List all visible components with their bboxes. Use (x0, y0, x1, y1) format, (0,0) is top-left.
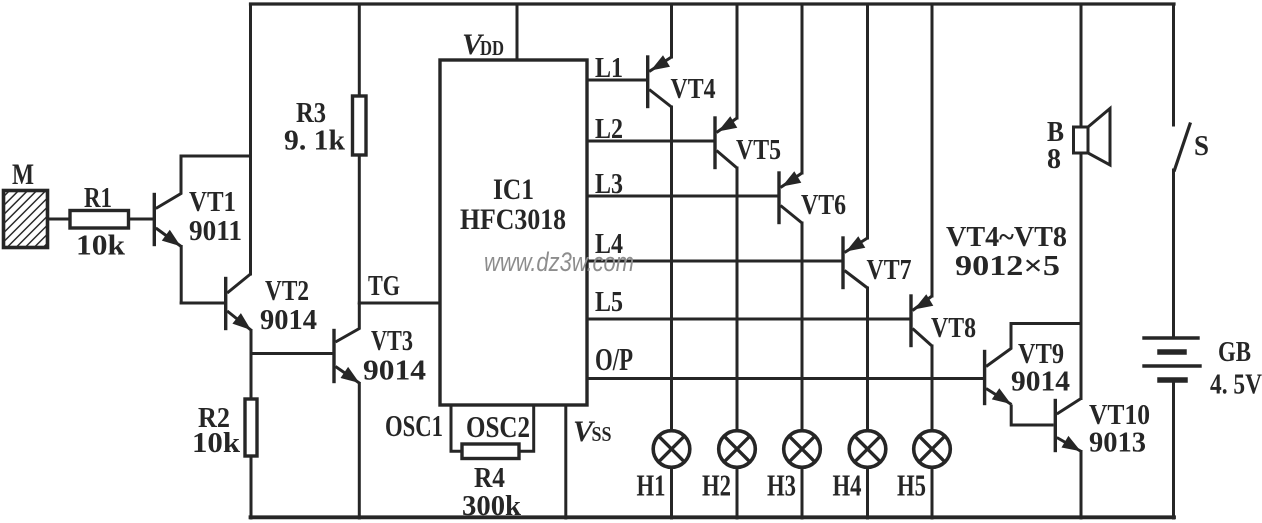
wire M to R1 (48, 218, 71, 221)
lamp H5 (914, 431, 951, 468)
svg-text:www.dz3w.com: www.dz3w.com (484, 247, 634, 277)
speaker B (1074, 109, 1111, 166)
wire VT1 emitter down (180, 247, 183, 304)
svg-text:HFC3018: HFC3018 (460, 203, 566, 236)
transistor VT4 emitter (649, 57, 671, 72)
wire OSC1 pin (451, 405, 462, 451)
svg-text:8: 8 (1047, 144, 1061, 175)
wire top rail to VT6 emitter (801, 4, 804, 173)
wire VT4 collector to lamp H1 (670, 107, 673, 431)
svg-text:R1: R1 (84, 182, 112, 214)
transistor VT8 base bar (909, 296, 912, 346)
wire OSC2 pin (519, 405, 534, 451)
svg-text:4. 5V: 4. 5V (1210, 370, 1262, 401)
svg-text:9011: 9011 (189, 215, 242, 247)
svg-text:DD: DD (480, 36, 504, 60)
wire TG node to IC1 (359, 302, 440, 305)
wire IC1 pin L2 to VT5 base (587, 140, 713, 143)
wire lamp H4 to ground rail (866, 467, 869, 518)
svg-text:S: S (1194, 130, 1209, 162)
svg-text:IC1: IC1 (493, 173, 534, 206)
svg-text:M: M (12, 158, 34, 191)
transistor VT10 base bar (1054, 401, 1057, 451)
svg-text:300k: 300k (462, 490, 522, 522)
lamp H3 (784, 431, 821, 468)
transistor VT1 emitter (156, 228, 181, 247)
transistor VT5 base bar (713, 118, 716, 168)
wire speaker to VT10 collector (1080, 153, 1083, 399)
transistor VT7 emitter (845, 238, 868, 253)
transistor VT7 collector (845, 271, 868, 289)
svg-text:H5: H5 (897, 468, 926, 503)
wire IC1 pin L4 to VT7 base (587, 260, 841, 263)
svg-text:VT1: VT1 (189, 186, 236, 218)
svg-text:VT3: VT3 (371, 325, 413, 357)
transistor VT10 emitter arrow (1062, 436, 1081, 451)
wire lamp H2 to ground rail (736, 467, 739, 518)
wire bottom ground rail (251, 515, 1175, 519)
wire VT9 emitter to VT10 base (1011, 405, 1053, 426)
lamp H2 (719, 431, 756, 468)
resistor R3 (353, 96, 367, 155)
transistor VT8 collector (913, 329, 933, 347)
svg-text:10k: 10k (192, 427, 241, 459)
transistor VT8 emitter arrow (PNP) (914, 294, 933, 309)
wire lamp H3 to ground rail (801, 467, 804, 518)
svg-text:VT7: VT7 (867, 254, 912, 286)
lamp H4 (849, 431, 886, 468)
battery GB plate 3 (long) (1144, 364, 1200, 367)
svg-text:O/P: O/P (595, 341, 633, 377)
wire VT1 emitter to VT2 base (181, 302, 225, 305)
wire VT10 emitter to ground rail (1080, 452, 1083, 519)
transistor VT1 collector (156, 156, 181, 209)
wire R3 to TG node (358, 155, 361, 303)
transistor VT2 collector (227, 274, 250, 293)
wire lamp H1 to ground rail (670, 467, 673, 518)
svg-text:VT2: VT2 (265, 275, 309, 307)
wire R2 to ground rail (250, 456, 253, 518)
svg-text:L2: L2 (595, 113, 623, 145)
transistor VT9 collector (986, 324, 1011, 367)
transistor VT4 collector (649, 90, 671, 108)
svg-text:OSC1: OSC1 (385, 408, 443, 443)
transistor VT3 base bar (332, 331, 335, 382)
svg-text:VT4: VT4 (671, 73, 716, 105)
battery GB plate 4 (short) (1160, 377, 1185, 383)
wire VT6 collector to lamp H3 (801, 223, 804, 431)
wire IC1 pin L5 to VT8 base (587, 318, 909, 321)
transistor VT4 emitter arrow (PNP) (651, 55, 670, 70)
wire top rail to switch S (1172, 4, 1175, 125)
wire top rail to VT7 emitter (866, 4, 869, 238)
transistor VT2 emitter arrow (232, 313, 251, 330)
transistor VT5 emitter arrow (PNP) (718, 116, 737, 131)
transistor VT10 emitter (1057, 438, 1082, 452)
svg-text:9014: 9014 (1011, 366, 1070, 398)
wire VT8 collector to lamp H5 (931, 346, 934, 431)
wire IC1 pin L3 to VT6 base (587, 195, 777, 198)
wire top rail to speaker (1080, 4, 1083, 127)
svg-text:9013: 9013 (1089, 427, 1146, 459)
resistor R2 (245, 399, 257, 456)
lamp H1 (653, 431, 690, 468)
wire VT3 emitter to ground rail (358, 384, 361, 519)
wire top supply rail (251, 2, 1175, 5)
svg-text:H2: H2 (702, 468, 731, 503)
wire VT5 collector to lamp H2 (736, 168, 739, 431)
svg-text:9. 1k: 9. 1k (284, 125, 346, 157)
battery GB plate 1 (long) (1144, 336, 1198, 339)
transistor VT5 emitter (717, 118, 738, 133)
wire top rail to R3 (358, 4, 361, 96)
svg-text:H4: H4 (833, 468, 862, 503)
svg-text:TG: TG (368, 270, 400, 302)
resistor R1 (70, 211, 129, 229)
svg-text:VT8: VT8 (931, 312, 976, 344)
switch S blade (1175, 124, 1191, 170)
svg-text:VT4~VT8: VT4~VT8 (946, 221, 1067, 253)
wire left rail upper segment (249, 4, 252, 274)
microphone M (4, 191, 48, 248)
wire VT7 collector to lamp H4 (866, 288, 869, 431)
wire top rail to VT4 emitter (670, 4, 673, 57)
wire VT1 collector to left rail (181, 155, 251, 158)
transistor VT8 emitter (913, 296, 933, 311)
transistor VT1 base bar (153, 195, 156, 245)
transistor VT1 emitter arrow (162, 230, 181, 246)
wire R1 to VT1 base (129, 218, 154, 221)
battery GB plate 2 (short) (1160, 349, 1184, 355)
transistor VT3 emitter arrow (341, 367, 360, 383)
transistor VT6 emitter arrow (PNP) (782, 171, 801, 186)
wire top rail to VT8 emitter (931, 4, 934, 296)
transistor VT9 emitter arrow (992, 388, 1011, 404)
transistor VT2 base bar (224, 279, 227, 329)
svg-text:H3: H3 (767, 468, 796, 503)
transistor VT9 emitter (986, 389, 1011, 405)
transistor VT2 emitter (227, 311, 251, 331)
wire top rail to VT5 emitter (736, 4, 739, 118)
transistor VT3 collector (336, 303, 360, 342)
transistor VT7 emitter arrow (PNP) (846, 236, 865, 251)
transistor VT6 collector (781, 206, 803, 224)
transistor VT6 base bar (777, 173, 780, 223)
wire VT2 emitter down (250, 331, 253, 400)
svg-text:OSC2: OSC2 (466, 409, 530, 444)
svg-text:9014: 9014 (260, 304, 317, 336)
transistor VT10 collector (1057, 399, 1081, 415)
wire lamp H5 to ground rail (931, 467, 934, 518)
transistor VT4 base bar (646, 57, 649, 107)
IC U1 HFC3018 body (440, 60, 587, 405)
svg-text:L1: L1 (595, 52, 623, 84)
transistor VT5 collector (717, 151, 738, 169)
wire VSS pin to ground rail (564, 405, 567, 518)
svg-text:H1: H1 (637, 468, 666, 503)
svg-text:10k: 10k (76, 230, 126, 262)
wire switch S to battery (1172, 170, 1175, 338)
wire VDD pin (516, 4, 519, 60)
wire IC1 pin O/P to VT9 base (587, 377, 984, 380)
svg-text:9014: 9014 (363, 355, 426, 387)
svg-text:VT5: VT5 (736, 134, 781, 166)
svg-text:SS: SS (592, 422, 612, 446)
svg-text:L3: L3 (595, 168, 623, 200)
transistor VT3 emitter (336, 367, 361, 384)
wire IC1 pin L1 to VT4 base (587, 79, 646, 82)
wire VT2 emitter to VT3 base (251, 352, 333, 355)
resistor R4 (462, 444, 519, 459)
svg-text:9012×5: 9012×5 (955, 250, 1060, 282)
transistor VT6 emitter (781, 173, 803, 188)
svg-text:GB: GB (1218, 337, 1251, 368)
transistor VT9 base bar (983, 352, 986, 404)
transistor VT7 base bar (841, 238, 844, 288)
svg-text:VT6: VT6 (801, 189, 846, 221)
wire VT9 collector to speaker line (1011, 322, 1081, 325)
svg-text:L5: L5 (595, 286, 623, 318)
wire battery to ground rail (1172, 380, 1175, 518)
